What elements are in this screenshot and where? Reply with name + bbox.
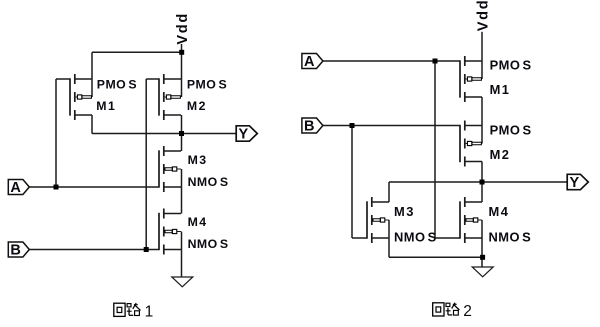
svg-text:Y: Y — [569, 175, 579, 191]
svg-text:M1: M1 — [96, 99, 115, 113]
svg-text:M4: M4 — [188, 215, 207, 229]
svg-text:NMOS: NMOS — [394, 229, 437, 244]
svg-text:M1: M1 — [490, 82, 510, 97]
svg-text:B: B — [10, 243, 20, 259]
svg-text:1: 1 — [145, 304, 154, 321]
svg-text:Vdd: Vdd — [175, 12, 191, 45]
svg-text:Y: Y — [238, 127, 248, 143]
svg-text:NMOS: NMOS — [188, 237, 229, 251]
svg-text:M4: M4 — [489, 204, 509, 219]
svg-text:2: 2 — [463, 303, 472, 320]
svg-text:M2: M2 — [187, 99, 206, 113]
svg-text:M3: M3 — [188, 153, 207, 167]
svg-text:PMOS: PMOS — [490, 123, 532, 138]
svg-text:M3: M3 — [394, 204, 414, 219]
svg-text:NMOS: NMOS — [489, 229, 532, 244]
svg-text:M2: M2 — [490, 147, 510, 162]
svg-text:B: B — [304, 119, 314, 135]
svg-text:A: A — [10, 180, 21, 196]
svg-text:Vdd: Vdd — [476, 0, 492, 31]
svg-text:NMOS: NMOS — [188, 175, 229, 189]
svg-text:PMOS: PMOS — [187, 77, 227, 91]
svg-text:PMOS: PMOS — [490, 58, 532, 73]
svg-text:PMOS: PMOS — [97, 77, 137, 91]
svg-text:A: A — [304, 54, 315, 70]
